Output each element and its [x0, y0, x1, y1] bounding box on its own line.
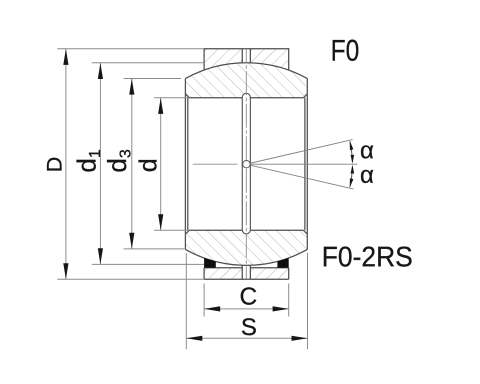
arrowhead d3 up	[129, 79, 134, 95]
bore chamfer bottom-left	[185, 230, 189, 234]
svg-text:d: d	[134, 158, 162, 172]
sphere arc top	[185, 63, 307, 79]
alpha dimension arc lower	[350, 167, 352, 187]
bore chamfer bottom-right	[303, 230, 307, 234]
bore inner silhouette right	[304, 98, 306, 231]
arrowhead S right	[292, 336, 308, 341]
arrowhead C left	[204, 306, 220, 311]
arrowhead C right	[273, 306, 289, 311]
arrowhead d1 up	[98, 63, 103, 79]
seal right (2RS)	[277, 258, 288, 268]
extension line S right	[307, 253, 309, 349]
horizontal centerline left	[193, 163, 238, 165]
extension line C right	[288, 284, 290, 317]
inner ring bottom section hatch	[185, 230, 307, 265]
arrowhead alpha arc lower-top	[351, 165, 355, 174]
bore chamfer top-right	[303, 94, 307, 98]
extension line d bottom	[154, 229, 188, 231]
arrowhead d1 down	[98, 248, 103, 264]
vertical centerline	[245, 49, 247, 280]
inner ring top section hatch	[185, 63, 307, 98]
extension line C left	[203, 284, 205, 317]
arrowhead alpha arc upper-bottom	[351, 155, 355, 164]
lubrication slot white in top outer ring	[242, 49, 250, 63]
sphere arc bottom	[185, 249, 307, 265]
sphere center circle	[243, 161, 250, 168]
bore lubrication slot (rounded ends)	[242, 93, 250, 234]
extension line d top	[154, 97, 188, 99]
extension line d1 top	[92, 62, 204, 64]
lube slot walls top block	[242, 49, 250, 63]
lube slot walls bottom block	[242, 265, 250, 279]
extension line d3 top	[124, 77, 182, 79]
alpha tilt line lower	[250, 165, 353, 189]
dimension line d1	[99, 63, 101, 264]
alpha dimension arc upper	[350, 141, 352, 161]
dimension line d	[160, 98, 162, 230]
outer ring top block outline	[204, 49, 289, 70]
extension line S left	[185, 253, 187, 349]
extension line d1 bottom	[92, 263, 204, 265]
outer ring bottom block top edge	[204, 267, 289, 269]
bore inner silhouette left	[187, 98, 189, 231]
seal left (2RS)	[204, 258, 216, 268]
extension line D bottom	[57, 278, 204, 280]
arrowhead d down	[158, 214, 163, 230]
svg-text:α: α	[360, 137, 374, 164]
outer ring bottom section hatch	[204, 268, 289, 280]
svg-text:C: C	[239, 284, 257, 311]
arrowhead alpha arc lower-bottom	[350, 178, 354, 187]
dimension line D	[65, 49, 67, 279]
arrowhead d3 down	[129, 233, 134, 249]
alpha tilt line upper	[250, 140, 352, 164]
arrowhead d up	[158, 98, 163, 114]
svg-text:D: D	[42, 157, 66, 173]
svg-text:α: α	[360, 162, 374, 189]
svg-text:S: S	[241, 314, 257, 341]
horizontal centerline right	[250, 163, 357, 165]
extension line D top	[57, 48, 204, 50]
extension line d3 bottom	[124, 248, 185, 250]
svg-text:F0-2RS: F0-2RS	[322, 241, 413, 273]
bore top edge	[189, 97, 303, 99]
arrowhead S left	[186, 336, 202, 341]
svg-text:F0: F0	[331, 35, 360, 68]
bore chamfer top-left	[185, 94, 189, 98]
dimension line d3	[131, 79, 133, 249]
inner ring left side face	[184, 79, 186, 250]
outer ring top section hatch	[204, 49, 289, 70]
outer ring bottom block outline	[204, 268, 289, 280]
dimension line C	[204, 308, 288, 310]
arrowhead D down	[63, 263, 68, 279]
inner ring right side face	[306, 79, 308, 250]
arrowhead D up	[63, 49, 68, 65]
arrowhead alpha arc upper-top	[350, 141, 354, 150]
dimension line S	[186, 337, 307, 339]
bore bottom edge	[189, 229, 303, 231]
lubrication slot white in bottom outer ring	[242, 265, 250, 279]
